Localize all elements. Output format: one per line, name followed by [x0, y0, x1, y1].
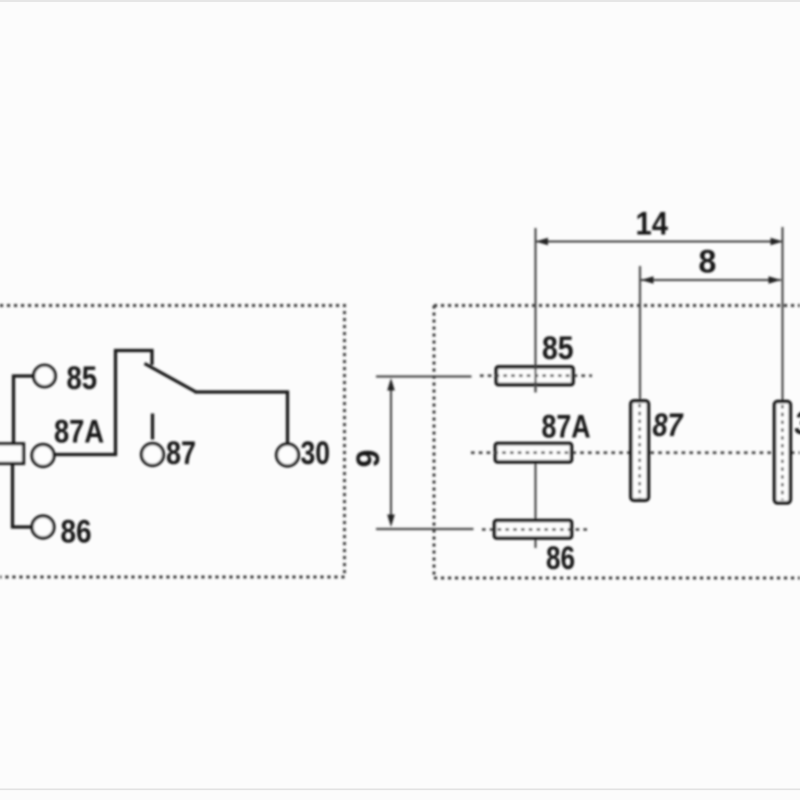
pin85 re-draw vertical centerline over blade [534, 366, 536, 393]
svg-text:8: 8 [699, 244, 717, 280]
pin87A dashed centerline (runs through 87 and 30 blades) [471, 451, 800, 454]
pin30 blade (vertical) [775, 402, 791, 503]
svg-text:87: 87 [653, 407, 685, 443]
dim14 left extension / centerline through pin85 [534, 228, 536, 393]
pin86 dashed centerline [482, 528, 591, 531]
svg-text:87: 87 [166, 435, 196, 471]
wire: pin85 to coil top [14, 376, 35, 445]
svg-text:85: 85 [67, 360, 98, 396]
pin87 dashed centerline (vertical) [638, 404, 640, 498]
wire: coil bottom to pin86 [13, 464, 33, 528]
pin87 stub wire [151, 414, 154, 440]
terminal circle 85 [34, 365, 56, 387]
svg-text:30: 30 [301, 435, 331, 471]
pin87 blade (vertical) [631, 401, 649, 500]
svg-text:30: 30 [795, 405, 800, 441]
bottom faint rule [0, 789, 800, 791]
switch armature blade [145, 364, 197, 393]
pin85 dashed centerline [480, 374, 592, 377]
coil K1 [0, 444, 24, 464]
svg-text:87A: 87A [54, 414, 104, 450]
wire: armature to pin30 [195, 392, 288, 444]
dim8 left extension down to pin87 [639, 266, 641, 399]
centerline segment 87A-86-label [534, 450, 536, 548]
pin30 dashed centerline (vertical) [781, 405, 783, 500]
dim9 extension line bottom [376, 528, 474, 530]
pin87A blade [495, 444, 571, 462]
pin86 blade [495, 521, 572, 539]
terminal circle 87A [32, 445, 54, 467]
wire: pin87A to switch pivot [55, 351, 153, 455]
svg-text:86: 86 [546, 540, 575, 576]
dim14 right extension down to pin30 [781, 227, 783, 401]
pin85 blade [496, 367, 573, 385]
svg-text:9: 9 [350, 450, 386, 468]
dim9 extension line top [376, 375, 472, 377]
svg-text:14: 14 [636, 206, 669, 242]
dim9 line with arrows [390, 381, 392, 522]
svg-text:87A: 87A [542, 409, 591, 445]
terminal circle 87 [142, 444, 164, 466]
dashed enclosure (right box) [434, 306, 800, 579]
svg-text:86: 86 [61, 514, 92, 550]
terminal circle 30 [277, 444, 299, 466]
dim8 line [641, 279, 781, 281]
dim14 line [536, 241, 784, 243]
top edge gray strip [0, 0, 800, 2]
svg-text:85: 85 [542, 330, 574, 366]
dashed enclosure (left box) [0, 306, 345, 578]
terminal circle 86 [32, 516, 54, 538]
